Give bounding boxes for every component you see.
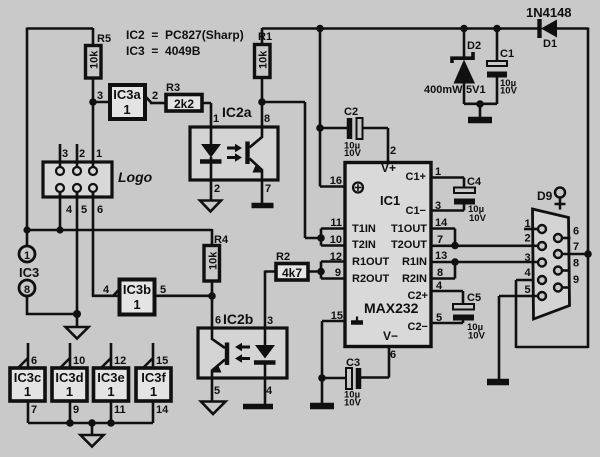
wire: C4 bottom to pin3 (431, 204, 464, 211)
svg-text:10V: 10V (344, 398, 362, 409)
node: junction R1 / IC2a pin8 (258, 98, 266, 106)
wire: connector pin4 down to net (59, 192, 62, 230)
wire: R2 to IC2b pin3 (264, 271, 267, 346)
ground (bar) IC2a pin7 (252, 203, 274, 209)
resistor R5 (86, 28, 112, 103)
node: junction connector pin4 / net (56, 226, 63, 233)
wire: pin1 to C4 top (431, 178, 464, 188)
ground (open triangle) IC2a pin2 (200, 201, 221, 212)
svg-text:1: 1 (150, 384, 157, 399)
wire: rail to C2 and MAX232 pin16 (320, 28, 347, 187)
svg-text:2: 2 (214, 183, 220, 195)
svg-text:3: 3 (525, 252, 531, 264)
optocoupler IC2b (198, 296, 287, 404)
svg-text:1: 1 (525, 218, 531, 230)
connector D9 body fill (533, 209, 570, 319)
node 3: junction R5 / IC3a input / connector pin1 (89, 98, 97, 106)
wire: connector pin5 down to ground node (76, 192, 79, 315)
svg-text:3: 3 (97, 90, 103, 102)
inverter IC3d (52, 343, 87, 423)
ground (bar) under D2/C1 (479, 104, 482, 117)
wire: R3 to IC2a pin1 (202, 103, 211, 145)
svg-text:6: 6 (573, 226, 579, 238)
svg-text:10k: 10k (208, 251, 220, 270)
svg-text:C5: C5 (467, 292, 481, 304)
resistor R1 (255, 28, 273, 103)
phototransistor IC2b (212, 296, 225, 348)
wire: C2 right to MAX232 pin2 (362, 128, 388, 163)
svg-text:Logo: Logo (118, 169, 153, 185)
node: rail junction C1 (493, 25, 501, 33)
svg-text:6: 6 (390, 349, 396, 361)
svg-text:D2: D2 (467, 40, 481, 52)
svg-text:T2OUT: T2OUT (391, 239, 427, 251)
svg-text:C4: C4 (467, 176, 482, 188)
wire: T1IN/T2IN staple (321, 229, 346, 246)
wire: C5 bottom to pin5 (431, 320, 463, 323)
svg-text:15: 15 (156, 355, 168, 367)
node: junction D1 drop / D9 pin7 (584, 250, 592, 258)
svg-text:R1: R1 (258, 31, 272, 43)
ground (open triangle) below IC3 pin8 (66, 314, 89, 339)
svg-text:12: 12 (114, 355, 126, 367)
wire: R1 node to MAX232 T1IN/T2IN (262, 102, 321, 238)
svg-text:4: 4 (525, 267, 532, 279)
svg-text:3: 3 (62, 148, 68, 160)
svg-text:C1+: C1+ (406, 171, 427, 183)
node: junction left rail / net (23, 226, 30, 233)
svg-text:IC1: IC1 (380, 193, 400, 208)
svg-text:6: 6 (31, 355, 37, 367)
capacitor C1 (487, 28, 518, 104)
svg-text:7: 7 (573, 241, 579, 253)
svg-text:R2OUT: R2OUT (352, 273, 390, 285)
wire: D2/C1 bottom to ground (464, 103, 497, 106)
svg-text:11: 11 (114, 404, 126, 416)
svg-text:IC3c: IC3c (14, 370, 41, 385)
D9 pin 1 (524, 228, 538, 231)
node: junction R2 at R-out staple (317, 268, 325, 276)
connector D9 (DB9 female) (524, 188, 588, 320)
svg-text:1: 1 (213, 113, 219, 125)
svg-text:V−: V− (383, 329, 398, 343)
op-amp / driver IC1 MAX232 (330, 161, 448, 361)
svg-text:T1IN: T1IN (352, 223, 376, 235)
wire: node3 to IC3a input (93, 101, 110, 104)
svg-text:4: 4 (103, 284, 110, 296)
pin15 internal ground glyph (351, 320, 363, 325)
wire: D9 pin5 to ground (499, 296, 538, 379)
text: parts list IC2 / IC3 (126, 28, 244, 58)
inverter IC3f (136, 343, 171, 423)
diode D1 1N4148 (526, 5, 572, 50)
optocoupler IC2a (190, 102, 278, 203)
capacitor C2 (344, 106, 363, 159)
inverter IC3a (110, 85, 158, 119)
wire: R1IN to D9 pin3 (431, 261, 538, 264)
svg-text:1: 1 (96, 148, 102, 160)
D9 pin 6 (554, 234, 562, 242)
D9 pin 8 (554, 267, 562, 275)
wire: R-out staple (321, 262, 346, 279)
svg-text:C1: C1 (500, 48, 514, 60)
pin IC3 power pin 8 (19, 280, 35, 296)
svg-text:1: 1 (66, 384, 73, 399)
svg-text:4: 4 (66, 204, 73, 216)
svg-text:1: 1 (24, 250, 30, 262)
svg-text:R2IN: R2IN (402, 273, 427, 285)
ground (bar) under D9 pin5 (487, 379, 509, 386)
female symbol (555, 188, 565, 198)
svg-text:1: 1 (24, 384, 31, 399)
svg-text:R1OUT: R1OUT (352, 256, 390, 268)
svg-text:10V: 10V (500, 86, 518, 97)
svg-text:2: 2 (390, 145, 396, 157)
svg-text:5: 5 (525, 284, 531, 296)
svg-text:IC3e: IC3e (97, 370, 124, 385)
node: rail junction D2 (460, 25, 468, 33)
capacitor C4 (454, 176, 487, 224)
svg-text:2: 2 (152, 90, 158, 102)
D9 pin 7 (554, 250, 562, 258)
svg-text:10k: 10k (89, 50, 101, 69)
svg-text:4k7: 4k7 (282, 266, 302, 280)
svg-text:9: 9 (73, 404, 79, 416)
svg-text:D9: D9 (537, 189, 553, 203)
svg-text:1: 1 (123, 102, 130, 117)
wire: T1OUT to T2OUT staple (431, 229, 455, 246)
resistor R4 (204, 229, 229, 297)
svg-text:1N4148: 1N4148 (526, 5, 572, 20)
D9 pin 9 (554, 284, 562, 292)
svg-text:IC3d: IC3d (55, 370, 83, 385)
svg-text:IC2 = PC827(Sharp): IC2 = PC827(Sharp) (126, 28, 244, 42)
node: junction R4 / IC3b out / IC2b pin6 (208, 292, 216, 300)
svg-text:5V1: 5V1 (466, 84, 486, 96)
svg-text:6: 6 (215, 315, 221, 327)
node: junction C2 left (316, 124, 324, 132)
svg-text:1: 1 (107, 384, 114, 399)
svg-text:D1: D1 (543, 38, 557, 50)
node: ground junction pin5/pin8 (73, 310, 81, 318)
svg-text:C1−: C1− (406, 205, 427, 217)
light arrows IC2b (241, 346, 250, 349)
zener diode D2 (424, 28, 486, 104)
ground (bar) IC2b pin4 (243, 404, 273, 410)
svg-text:6: 6 (97, 204, 103, 216)
svg-text:IC3a: IC3a (113, 87, 141, 102)
node: junction R-in (451, 258, 459, 266)
svg-text:400mW: 400mW (424, 84, 463, 96)
svg-text:IC3 = 4049B: IC3 = 4049B (126, 44, 201, 58)
svg-text:7: 7 (265, 183, 271, 195)
svg-text:T2IN: T2IN (352, 239, 376, 251)
wire: ground bus under IC3c-f (28, 422, 153, 425)
svg-text:C2−: C2− (408, 321, 429, 333)
svg-text:5: 5 (160, 284, 166, 296)
svg-text:5: 5 (81, 204, 87, 216)
node: bus junction IC3e (107, 419, 115, 427)
wire: top-left V+ branch horizontal (27, 27, 93, 30)
svg-text:8: 8 (264, 113, 270, 125)
ground (open triangle) IC2b pin5 (201, 402, 226, 415)
node: junction D2/C1 ground (476, 100, 484, 108)
svg-text:C2: C2 (344, 106, 358, 118)
svg-text:3: 3 (267, 315, 273, 327)
node: bus junction ground tap (88, 419, 96, 427)
phototransistor IC2a (250, 102, 263, 148)
svg-text:IC2b: IC2b (223, 311, 253, 327)
wire: R2IN staple (431, 262, 455, 279)
svg-text:12: 12 (330, 251, 342, 263)
svg-text:R5: R5 (97, 33, 111, 45)
wire: pin4 to C5 top (431, 291, 463, 304)
LED inside IC2b (255, 345, 275, 359)
svg-text:11: 11 (330, 217, 342, 229)
resistor R2 (265, 251, 321, 280)
node: bus junction IC3d (66, 419, 74, 427)
svg-text:R3: R3 (166, 82, 180, 94)
wire: horizontal net from left rail to R4 top (26, 229, 212, 232)
wire: pin15 to C3 left / ground (322, 321, 346, 378)
svg-text:10: 10 (73, 355, 85, 367)
svg-text:10V: 10V (344, 148, 362, 159)
svg-text:R1IN: R1IN (402, 256, 427, 268)
svg-text:MAX232: MAX232 (364, 300, 419, 316)
svg-text:R2: R2 (276, 251, 290, 263)
wire: IC3b output to R4 bottom node (154, 294, 212, 297)
svg-text:10V: 10V (468, 331, 486, 342)
inverter IC3b (103, 280, 166, 315)
svg-text:2k2: 2k2 (174, 97, 194, 111)
svg-text:5: 5 (214, 385, 220, 397)
svg-text:7: 7 (31, 404, 37, 416)
svg-text:1: 1 (133, 297, 140, 312)
svg-text:IC3f: IC3f (141, 370, 166, 385)
svg-text:V+: V+ (381, 161, 396, 175)
capacitor C3 (344, 357, 362, 409)
svg-text:IC3b: IC3b (123, 282, 151, 297)
svg-text:4: 4 (266, 385, 273, 397)
svg-text:16: 16 (330, 175, 342, 187)
svg-text:8: 8 (24, 284, 30, 296)
node: junction at T-in staple (317, 234, 325, 242)
svg-text:9: 9 (335, 267, 341, 279)
svg-text:14: 14 (156, 404, 169, 416)
pin IC3 power pin 1 (26, 230, 29, 246)
pin 16 + symbol (353, 183, 363, 193)
D9 outline (533, 209, 570, 319)
capacitor C5 (453, 292, 486, 342)
wire: rail after D1 to right edge drop (516, 28, 588, 349)
node: rail junction C2 branch (316, 25, 324, 33)
inverter IC3c (10, 343, 45, 423)
svg-text:13: 13 (435, 250, 447, 262)
svg-text:10V: 10V (469, 213, 487, 224)
svg-text:9: 9 (573, 274, 579, 286)
wire: T2OUT to D9 pin2 (431, 245, 538, 248)
node: junction T-out (451, 242, 459, 250)
wire: left rail vertical to node row (26, 28, 29, 232)
light arrows IC2a (227, 147, 236, 150)
svg-text:10: 10 (330, 234, 342, 246)
svg-text:T1OUT: T1OUT (391, 223, 427, 235)
wire: pin6 to C3 right (361, 346, 389, 378)
svg-text:IC2a: IC2a (222, 104, 252, 120)
svg-text:7: 7 (437, 234, 443, 246)
svg-text:2: 2 (79, 148, 85, 160)
node: junction C3 / ground (318, 374, 326, 382)
ground (open triangle) under IC3 bus (81, 423, 104, 447)
connector K1 (Logo) (43, 144, 112, 216)
wire: connector pin6 down to IC3b input (92, 192, 119, 297)
svg-text:2: 2 (525, 233, 531, 245)
wire: V+ top rail (262, 27, 539, 30)
wire: IC3a pin2 to R3 (150, 102, 166, 105)
wire: node3 down to connector pin 1 (92, 102, 95, 167)
LED inside IC2a (201, 144, 221, 158)
ground (bar) under C3 (321, 378, 324, 403)
svg-text:10k: 10k (258, 50, 270, 69)
svg-text:IC3: IC3 (19, 265, 39, 280)
svg-text:8: 8 (573, 258, 579, 270)
resistor R3 (166, 82, 202, 111)
inverter IC3e (94, 343, 129, 423)
